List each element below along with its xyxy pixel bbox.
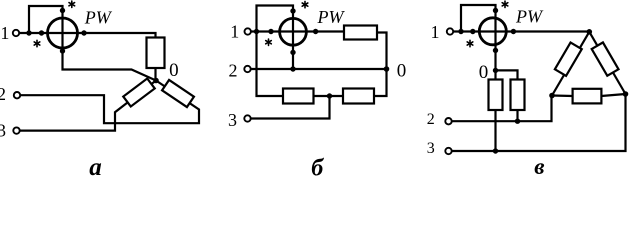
resistor artificial branch left (v) xyxy=(489,80,503,111)
wire line 3: terminal to delta right vertex (v) xyxy=(452,94,626,151)
current-coil left terminal dot (v) xyxy=(470,29,475,34)
svg-text:2: 2 xyxy=(0,84,6,104)
resistor phase-1 load (a) xyxy=(147,38,165,69)
terminal 3 (b) xyxy=(244,115,250,121)
delta right vertex node dot (v) xyxy=(623,91,629,97)
svg-text:0: 0 xyxy=(397,60,407,81)
wattmeter PW circle (b) xyxy=(280,18,307,45)
current-coil right terminal dot (v) xyxy=(511,29,516,34)
node 0 dot (b) xyxy=(384,66,390,72)
delta bottom side wire (v) xyxy=(552,94,626,96)
current-coil right terminal dot (b) xyxy=(313,29,318,34)
voltage-coil bottom terminal dot (v) xyxy=(493,48,498,53)
node 0 dot (a) xyxy=(153,78,159,84)
junction dot voltage branch on line 3 (v) xyxy=(493,148,498,153)
voltage-coil bottom terminal dot (b) xyxy=(290,50,295,55)
terminal 1 (v) xyxy=(447,28,453,34)
svg-text:PW: PW xyxy=(84,8,113,28)
wire resistor to node 0 (a) xyxy=(154,68,156,81)
terminal 2 (b) xyxy=(244,66,250,72)
wire right resistor up to node 0 (b) xyxy=(374,69,387,96)
svg-text:0: 0 xyxy=(479,62,489,83)
svg-text:2: 2 xyxy=(229,61,238,81)
current-coil left terminal dot (a) xyxy=(39,30,44,35)
polarity asterisk voltage coil (a) xyxy=(69,1,75,7)
junction dot right resistor on line 2 (v) xyxy=(515,119,520,124)
node 0 junction dot (v) xyxy=(493,68,498,73)
wattmeter PW circle (a) xyxy=(48,18,78,48)
resistor artificial branch right (v) xyxy=(511,80,525,111)
svg-text:1: 1 xyxy=(230,22,239,42)
svg-text:в: в xyxy=(534,154,544,176)
delta load resistor left side (v) xyxy=(555,43,582,76)
svg-text:0: 0 xyxy=(169,60,179,81)
svg-text:1: 1 xyxy=(0,23,9,43)
wire line 1: terminal through current coil to resistor (b) xyxy=(251,30,344,32)
svg-text:3: 3 xyxy=(228,110,237,130)
junction dot between bottom resistors (b) xyxy=(327,93,332,98)
resistor phase-1 (b) xyxy=(344,26,377,40)
wire artificial-point branch from line-1 junction down to bottom resistors (b) xyxy=(257,32,284,97)
resistor phase-2 load (a) xyxy=(162,80,194,107)
voltage-coil top terminal dot (b) xyxy=(290,8,295,13)
voltage-coil top terminal dot (a) xyxy=(60,8,65,13)
terminal 1 (b) xyxy=(245,28,251,34)
wire line 1: terminal to current coil and load (a) xyxy=(20,33,156,38)
wire resistor to node 0 (b) xyxy=(377,33,387,70)
wire between bottom resistors (b) xyxy=(314,95,344,97)
wire line 2: terminal to node 0 (b) xyxy=(251,68,387,70)
current-coil left terminal dot (b) xyxy=(268,29,273,34)
terminal 2 (v) xyxy=(445,118,451,124)
delta right side wire (v) xyxy=(589,32,625,94)
svg-text:PW: PW xyxy=(317,7,346,27)
wire phase-2 branch: terminal 2 down along bottom up to node (a) xyxy=(21,81,200,124)
svg-text:б: б xyxy=(311,156,324,177)
resistor artificial branch right (b) xyxy=(343,89,374,104)
wire phase-3 branch: node to terminal 3 (a) xyxy=(20,81,156,131)
terminal 1 (a) xyxy=(13,30,19,36)
junction dot on line 1 (b) xyxy=(254,29,259,34)
resistor phase-3 load (a) xyxy=(123,78,154,106)
wattmeter PW circle (v) xyxy=(479,18,506,45)
wire voltage-coil branch over top, through coil, down through left resistor to line 3 (v) xyxy=(461,5,496,151)
polarity asterisk voltage coil (b) xyxy=(302,1,308,7)
wire line 1: terminal through current coil to delta apex (v) xyxy=(454,30,590,32)
wire right resistor down to line 2 (v) xyxy=(516,110,518,121)
voltage-coil top terminal dot (v) xyxy=(493,8,498,13)
svg-text:PW: PW xyxy=(515,6,544,26)
delta left side wire (v) xyxy=(552,32,589,96)
polarity asterisk current coil (a) xyxy=(34,40,40,46)
delta load resistor right side (v) xyxy=(592,42,619,75)
terminal 3 (a) xyxy=(13,127,19,133)
wire voltage-coil branch over the top, through coil, down to line 2 (b) xyxy=(257,6,294,70)
junction dot on line 1 (v) xyxy=(458,29,463,34)
delta apex node dot (v) xyxy=(587,29,593,35)
voltage-coil bottom terminal dot (a) xyxy=(60,48,65,53)
wire line 2: terminal to delta left vertex (v) xyxy=(452,96,552,122)
polarity asterisk current coil (b) xyxy=(266,39,272,45)
svg-text:3: 3 xyxy=(427,140,435,157)
wire voltage-coil branch: junction up over to coil top, through coil, down to artificial point (a) xyxy=(29,6,156,81)
resistor artificial branch left (b) xyxy=(283,89,314,104)
svg-text:1: 1 xyxy=(431,22,440,42)
delta left vertex node dot (v) xyxy=(549,93,555,99)
svg-text:2: 2 xyxy=(427,111,435,128)
wire line 3: terminal to junction between resistors (b) xyxy=(251,96,330,119)
polarity asterisk voltage coil (v) xyxy=(502,1,508,7)
terminal 2 (a) xyxy=(14,92,20,98)
terminal 3 (v) xyxy=(445,148,451,154)
svg-text:а: а xyxy=(89,154,102,176)
junction dot on line 1 (a) xyxy=(26,30,31,35)
wire branch from node 0 to right resistor (v) xyxy=(496,70,518,79)
polarity asterisk current coil (v) xyxy=(467,40,473,46)
svg-text:3: 3 xyxy=(0,121,6,141)
junction dot voltage coil on line 2 (b) xyxy=(290,66,295,71)
current-coil right terminal dot (a) xyxy=(81,30,86,35)
delta load resistor bottom (v) xyxy=(573,89,602,104)
